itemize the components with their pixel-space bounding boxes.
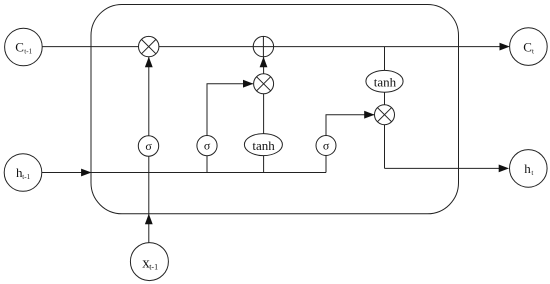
node xt-1: [130, 243, 168, 281]
svg-text:C: C: [523, 40, 532, 55]
gate sigma2: [197, 136, 217, 156]
wire: sigma2 branch up and right into mult2: [207, 84, 253, 173]
svg-text:h: h: [524, 161, 531, 176]
svg-text:σ: σ: [323, 138, 330, 152]
operator mult2 (input gate multiply): [254, 74, 274, 94]
gate sigma1: [138, 136, 158, 156]
svg-text:σ: σ: [145, 139, 152, 153]
gate sigma3: [316, 136, 336, 156]
wire: h line (ht-1 into cell, along bottom to sigma3): [42, 172, 326, 174]
gate tanh-right: [366, 70, 403, 92]
svg-text:tanh: tanh: [374, 74, 397, 89]
arrowhead at cell boundary (h input): [81, 169, 91, 177]
node Ct-1: [5, 28, 43, 66]
svg-text:t-1: t-1: [24, 48, 32, 56]
svg-text:t-1: t-1: [149, 262, 158, 271]
operator mult3 (output gate multiply): [375, 105, 395, 125]
svg-text:σ: σ: [204, 139, 211, 153]
operator mult1 (forget gate multiply): [139, 36, 159, 56]
wire: h line corner up to sigma3: [325, 136, 327, 173]
svg-text:t-1: t-1: [22, 173, 30, 181]
gate tanh-mid: [244, 134, 282, 156]
wire: sigma3 up and right into mult3: [326, 115, 374, 136]
operator plus (cell state add): [253, 36, 273, 56]
wire: x input vertical (xt-1 up through sigma1 to mult1): [148, 57, 150, 243]
arrowhead at cell bottom boundary (x input): [145, 214, 153, 224]
svg-text:C: C: [15, 40, 24, 55]
node ht: [510, 150, 548, 188]
node Ct: [510, 28, 548, 66]
arrowhead into Ct: [500, 43, 510, 51]
node ht-1: [4, 154, 42, 192]
LSTM cell body (rounded rectangle): [91, 5, 459, 214]
arrowhead into mult1: [145, 57, 153, 67]
svg-text:t: t: [531, 169, 533, 177]
arrowhead into ht: [499, 165, 509, 173]
svg-text:tanh: tanh: [252, 138, 275, 153]
svg-text:t: t: [532, 48, 534, 56]
wire: C line (Ct-1 to Ct): [42, 46, 500, 48]
wire: tanh-mid branch from h line up through mult2 to plus: [263, 57, 265, 173]
arrowhead into plus: [260, 57, 268, 67]
arrowhead into mult3: [364, 111, 374, 119]
arrowhead into mult2: [243, 80, 253, 88]
wire: C branch down through tanh-right and mult3 then right to ht: [384, 47, 386, 169]
